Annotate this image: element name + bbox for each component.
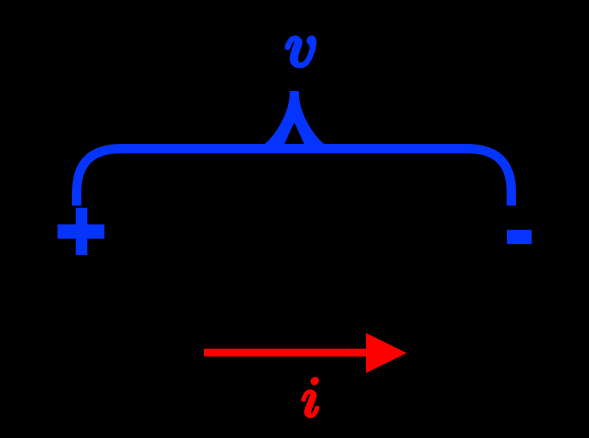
current label i (node i) [303,378,318,416]
plus terminal symbol [58,208,105,255]
minus terminal symbol [507,230,532,244]
current arrow (wire with arrowhead) [204,333,407,373]
voltage brace (wire-like curly bracket spanning the element) [77,149,512,206]
voltage label v (node v) [287,38,315,67]
voltage brace center cusp [264,91,325,147]
